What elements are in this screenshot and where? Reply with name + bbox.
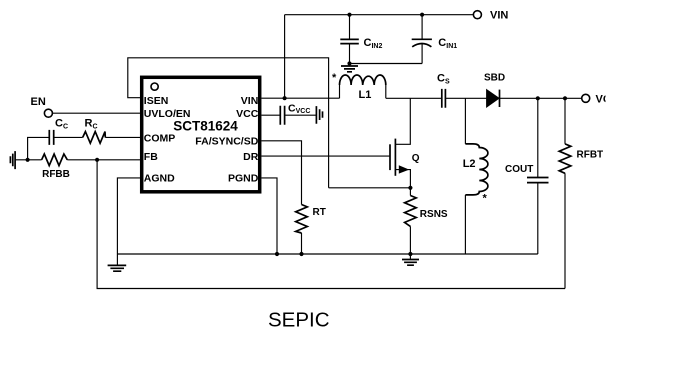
svg-text:RT: RT — [313, 207, 326, 218]
VOUT terminal circle — [582, 94, 590, 102]
node RFBT top — [563, 96, 567, 100]
ground AGND — [108, 265, 127, 271]
node FB left — [26, 158, 30, 162]
arrow on source — [399, 165, 409, 173]
node PGND bottom — [275, 252, 279, 256]
capacitor CIN2 — [349, 15, 351, 64]
svg-text:COMP: COMP — [144, 133, 176, 145]
wire CS to SBD — [445, 97, 486, 99]
wire VIN pin to L1 — [262, 97, 340, 99]
VIN terminal circle — [473, 11, 481, 19]
wire VCC to Cvcc — [262, 114, 317, 116]
wire AGND down — [117, 178, 140, 266]
capacitor CS — [442, 89, 446, 108]
ground left (FB divider) — [10, 151, 15, 169]
IC U1 SCT81624 — [142, 77, 260, 192]
ground right of Cvcc — [316, 106, 322, 124]
wire ground rail — [117, 253, 537, 255]
node FB right — [95, 158, 99, 162]
svg-text:*: * — [332, 72, 337, 84]
svg-text:FA/SYNC/SD: FA/SYNC/SD — [195, 136, 258, 148]
gate bar — [389, 144, 391, 170]
svg-text:EN: EN — [31, 96, 46, 108]
svg-text:SEPIC: SEPIC — [268, 309, 330, 332]
svg-text:SCT81624: SCT81624 — [173, 119, 238, 134]
capacitor Cc — [49, 130, 53, 145]
EN terminal circle — [44, 109, 52, 117]
wire L1 to CS — [386, 97, 442, 99]
node VIN pin junction — [283, 96, 287, 100]
channel bar — [394, 139, 396, 176]
inductor L2 — [464, 98, 466, 144]
wire EN to UVLO/EN pin — [53, 112, 141, 114]
node CIN1 top — [420, 13, 424, 17]
diode SBD — [487, 90, 499, 107]
svg-text:AGND: AGND — [144, 173, 175, 185]
svg-text:*: * — [483, 193, 488, 205]
ground power (under RSNS) — [402, 260, 419, 266]
svg-text:RFBB: RFBB — [42, 169, 70, 180]
svg-text:UVLO/EN: UVLO/EN — [144, 108, 191, 120]
inductor L1 — [340, 85, 386, 98]
svg-text:PGND: PGND — [228, 173, 259, 185]
svg-text:RSNS: RSNS — [420, 209, 448, 220]
resistor RFBT — [564, 98, 566, 288]
wire CIN2/CIN1 bottom link — [350, 63, 423, 65]
wire SBD to VOUT — [500, 97, 582, 99]
wire PGND down — [262, 178, 278, 254]
capacitor Cvcc — [280, 106, 284, 125]
ground under CIN2 — [341, 66, 358, 72]
node COUT top — [536, 96, 540, 100]
svg-text:Q: Q — [412, 153, 420, 164]
resistor RT — [296, 205, 308, 234]
resistor Rc — [83, 132, 106, 144]
svg-text:VCC: VCC — [236, 108, 259, 120]
svg-text:VIN: VIN — [241, 95, 259, 107]
wire sense node horizontal to RSNS top — [329, 187, 411, 189]
resistor RFBB — [42, 154, 68, 166]
capacitor CIN1 (polarized) — [421, 15, 423, 64]
node RSNS bottom — [408, 252, 412, 256]
wire FB row — [15, 159, 140, 161]
svg-text:SBD: SBD — [484, 73, 505, 84]
wire feedback bottom return — [97, 160, 565, 289]
node RT bottom — [299, 252, 303, 256]
wire ISEN loop (ISEN pin left, up, right along top, down to sense node) — [128, 58, 329, 188]
svg-text:RFBT: RFBT — [577, 149, 604, 160]
svg-text:ISEN: ISEN — [144, 95, 169, 107]
wire FA/SYNC/SD to RT — [262, 141, 302, 254]
node RSNS top — [408, 186, 412, 190]
wire top VIN rail — [285, 14, 474, 16]
wire COMP row with Cc branch — [28, 137, 140, 159]
resistor RSNS — [409, 188, 411, 260]
node CIN2 top — [347, 13, 351, 17]
wire DR pin to gate — [262, 155, 391, 157]
svg-text:L2: L2 — [463, 158, 476, 170]
svg-text:DR: DR — [243, 151, 259, 163]
svg-text:L1: L1 — [359, 89, 372, 101]
node CIN2 bottom — [347, 61, 351, 65]
svg-text:VIN: VIN — [490, 10, 508, 22]
pin-1 marker circle — [151, 83, 158, 90]
source stub — [395, 170, 410, 188]
svg-text:FB: FB — [144, 151, 158, 163]
svg-text:COUT: COUT — [505, 164, 533, 175]
wire VIN vertical riser — [284, 15, 286, 99]
drain stub — [395, 98, 410, 144]
capacitor COUT — [537, 98, 539, 254]
